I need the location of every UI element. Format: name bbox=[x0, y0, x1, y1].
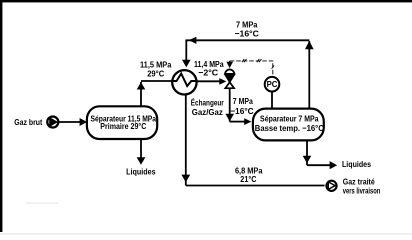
label Gaz traité vers livraison bbox=[343, 177, 381, 195]
wire: PC to separator 2 top bbox=[271, 92, 273, 110]
svg-text:Primaire 29°C: Primaire 29°C bbox=[100, 121, 146, 131]
wire: exchanger outlet to valve (right arrow) bbox=[195, 78, 226, 85]
svg-text:21°C: 21°C bbox=[240, 174, 257, 184]
svg-text:Liquides: Liquides bbox=[342, 159, 371, 169]
frame bottom border bbox=[0, 233, 412, 235]
pump symbol P2 (gas delivery) bbox=[326, 181, 336, 191]
separator V1 Séparateur 11,5 MPa Primaire 29°C bbox=[87, 106, 157, 139]
faint scan smudge bbox=[26, 202, 58, 203]
heat exchanger E1 (circle with zigzag) bbox=[172, 70, 196, 94]
wire: separator 1 gas outlet riser with up arrow bbox=[137, 82, 146, 106]
svg-text:7 MPa: 7 MPa bbox=[233, 96, 253, 106]
wire: riser to exchanger left inlet bbox=[141, 80, 172, 82]
svg-text:PC: PC bbox=[267, 80, 278, 89]
svg-text:Séparateur 7 MPa: Séparateur 7 MPa bbox=[260, 113, 319, 123]
svg-text:−16°C: −16°C bbox=[235, 29, 260, 39]
svg-text:Gaz/Gaz: Gaz/Gaz bbox=[192, 107, 224, 117]
signal line: arrow into valve actuator bbox=[226, 61, 233, 68]
frame left border bbox=[0, 0, 2, 232]
pump symbol P1 (inlet) bbox=[47, 117, 58, 128]
svg-text:Gaz traité: Gaz traité bbox=[343, 177, 375, 186]
label 7 MPa −16°C (top line) bbox=[235, 19, 260, 38]
svg-text:Gaz brut: Gaz brut bbox=[14, 117, 42, 127]
svg-text:Liquides: Liquides bbox=[126, 167, 156, 177]
signal line: dashed pneumatic line valve to PC bbox=[230, 59, 275, 77]
separator V2 Séparateur 7 MPa Basse temp. −16°C bbox=[253, 109, 324, 141]
svg-text:vers livraison: vers livraison bbox=[343, 186, 381, 195]
wire: separator 2 liquids outlet down then right arrow bbox=[303, 140, 338, 169]
svg-text:−2°C: −2°C bbox=[198, 68, 219, 78]
label 11,4 MPa −2°C bbox=[194, 59, 224, 78]
wire: valve outlet down then right into separator 2 bbox=[225, 88, 251, 125]
svg-text:−16°C: −16°C bbox=[230, 106, 254, 116]
label 6,8 MPa 21°C bbox=[235, 165, 263, 183]
label 7 MPa −16°C (valve outlet) bbox=[230, 96, 254, 116]
wire: inlet arrow to separator 1 bbox=[59, 118, 87, 126]
label Échangeur Gaz/Gaz bbox=[191, 98, 224, 117]
controller PC bbox=[265, 77, 280, 92]
wire: separator 1 liquids outlet (down arrow) bbox=[137, 139, 146, 165]
svg-text:29°C: 29°C bbox=[147, 68, 165, 78]
frame top border bbox=[0, 0, 412, 2]
svg-text:Basse temp. −16°C: Basse temp. −16°C bbox=[255, 123, 324, 133]
label 11,5 MPa 29°C bbox=[140, 59, 172, 78]
wire: top recycle line with left arrow bbox=[186, 37, 310, 44]
wire: separator 2 gas riser with up arrow bbox=[305, 41, 314, 109]
wire: recycle drop into exchanger top (down arrow) bbox=[182, 40, 191, 67]
wire: treated gas line from exchanger bottom to delivery bbox=[181, 94, 324, 186]
control valve CV1 (actuator dome + bowtie) bbox=[225, 69, 235, 88]
